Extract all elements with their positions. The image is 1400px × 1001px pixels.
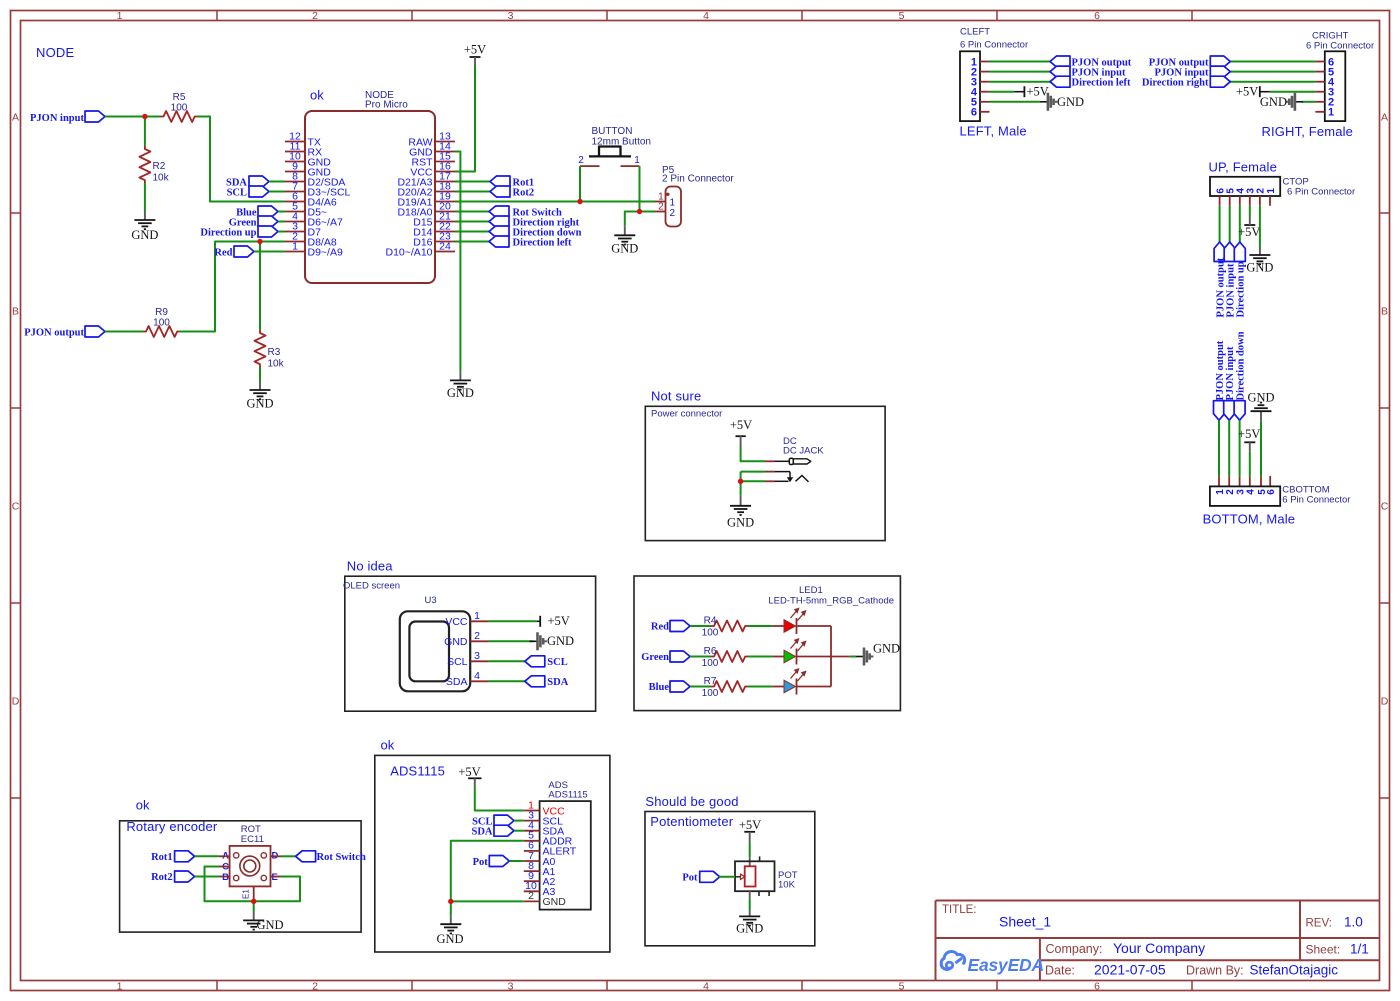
svg-text:PJON output: PJON output xyxy=(24,328,84,339)
svg-text:R3: R3 xyxy=(268,347,281,358)
svg-text:E1: E1 xyxy=(242,889,251,899)
svg-text:Drawn By:: Drawn By: xyxy=(1186,964,1244,978)
svg-text:GND: GND xyxy=(736,922,763,936)
svg-text:4: 4 xyxy=(703,10,709,22)
svg-text:4: 4 xyxy=(1246,489,1257,495)
svg-text:CLEFT: CLEFT xyxy=(960,27,990,38)
svg-text:2: 2 xyxy=(670,208,676,219)
svg-text:2 Pin Connector: 2 Pin Connector xyxy=(662,174,734,185)
svg-text:UP, Female: UP, Female xyxy=(1209,160,1277,175)
svg-text:R9: R9 xyxy=(155,307,168,318)
svg-text:Potentiometer: Potentiometer xyxy=(650,814,733,829)
svg-text:Rot2: Rot2 xyxy=(513,188,535,199)
svg-text:PJON input: PJON input xyxy=(1225,346,1236,400)
svg-text:GND: GND xyxy=(447,386,474,400)
svg-text:2: 2 xyxy=(578,155,584,166)
svg-text:GND: GND xyxy=(246,397,273,411)
svg-text:GND: GND xyxy=(1260,95,1287,109)
svg-text:100: 100 xyxy=(702,688,719,699)
svg-text:4: 4 xyxy=(474,670,480,682)
svg-text:GND: GND xyxy=(444,636,468,648)
svg-text:5: 5 xyxy=(899,981,905,993)
svg-text:Blue: Blue xyxy=(649,682,670,693)
svg-text:D: D xyxy=(12,696,20,708)
svg-text:GND: GND xyxy=(436,932,463,946)
svg-text:10k: 10k xyxy=(153,173,170,184)
svg-text:SDA: SDA xyxy=(547,677,568,688)
svg-text:D10~/A10: D10~/A10 xyxy=(386,246,433,258)
svg-text:NODE: NODE xyxy=(36,45,74,60)
svg-text:GND: GND xyxy=(873,641,900,655)
svg-text:LED1: LED1 xyxy=(799,585,823,596)
svg-text:+5V: +5V xyxy=(1027,85,1049,99)
svg-text:+5V: +5V xyxy=(1238,225,1260,239)
svg-text:+5V: +5V xyxy=(730,418,752,432)
svg-text:Your Company: Your Company xyxy=(1113,940,1205,956)
svg-text:R4: R4 xyxy=(704,615,717,626)
svg-text:Direction up: Direction up xyxy=(1236,261,1247,317)
svg-text:GND: GND xyxy=(1246,261,1273,275)
svg-text:6 Pin Connector: 6 Pin Connector xyxy=(1282,495,1350,506)
svg-text:ok: ok xyxy=(310,88,324,103)
svg-text:1/1: 1/1 xyxy=(1350,942,1369,957)
svg-text:VCC: VCC xyxy=(445,616,468,628)
svg-text:LEFT, Male: LEFT, Male xyxy=(960,124,1027,139)
svg-text:1: 1 xyxy=(1328,107,1334,119)
svg-text:100: 100 xyxy=(153,318,170,329)
svg-text:Date:: Date: xyxy=(1045,964,1075,978)
svg-text:+5V: +5V xyxy=(458,765,480,779)
svg-text:R7: R7 xyxy=(704,676,717,687)
svg-text:Rot2: Rot2 xyxy=(151,872,173,883)
svg-text:Pro Micro: Pro Micro xyxy=(365,100,408,111)
svg-text:6 Pin Connector: 6 Pin Connector xyxy=(1306,41,1374,52)
svg-text:3: 3 xyxy=(474,650,480,662)
svg-text:3: 3 xyxy=(508,10,514,22)
svg-text:4: 4 xyxy=(703,981,709,993)
svg-text:6: 6 xyxy=(1094,10,1100,22)
svg-text:A: A xyxy=(1381,112,1388,124)
svg-text:1: 1 xyxy=(1266,188,1277,194)
svg-text:SCL: SCL xyxy=(547,657,567,668)
svg-text:B: B xyxy=(12,306,19,318)
svg-text:RIGHT, Female: RIGHT, Female xyxy=(1262,124,1354,139)
svg-text:R2: R2 xyxy=(153,161,166,172)
svg-text:ok: ok xyxy=(136,798,150,813)
svg-text:GND: GND xyxy=(547,634,574,648)
svg-text:Pot: Pot xyxy=(682,873,698,884)
svg-text:3: 3 xyxy=(508,981,514,993)
svg-text:6 Pin Connector: 6 Pin Connector xyxy=(1287,187,1355,198)
svg-text:+5V: +5V xyxy=(1238,427,1260,441)
svg-text:100: 100 xyxy=(702,628,719,639)
svg-text:6: 6 xyxy=(971,107,977,119)
svg-text:OLED screen: OLED screen xyxy=(343,581,400,592)
svg-text:Pot: Pot xyxy=(473,857,489,868)
svg-text:D: D xyxy=(1381,696,1389,708)
svg-text:Not sure: Not sure xyxy=(651,389,701,404)
svg-text:R5: R5 xyxy=(173,92,186,103)
svg-text:SCL: SCL xyxy=(227,188,247,199)
svg-text:GND: GND xyxy=(131,228,158,242)
svg-text:2: 2 xyxy=(312,981,318,993)
svg-text:2: 2 xyxy=(1225,489,1236,495)
svg-text:C: C xyxy=(1381,501,1389,513)
svg-text:Direction up: Direction up xyxy=(200,228,256,239)
svg-text:Direction down: Direction down xyxy=(1235,331,1246,400)
svg-text:100: 100 xyxy=(702,658,719,669)
svg-text:2: 2 xyxy=(658,202,664,213)
svg-text:REV:: REV: xyxy=(1306,918,1332,930)
svg-text:SCL: SCL xyxy=(447,656,468,668)
svg-text:100: 100 xyxy=(171,103,188,114)
svg-text:1: 1 xyxy=(474,610,480,622)
svg-text:+5V: +5V xyxy=(464,43,486,57)
svg-text:1.0: 1.0 xyxy=(1344,915,1363,930)
svg-text:1: 1 xyxy=(292,241,298,253)
svg-text:1: 1 xyxy=(117,10,123,22)
svg-text:Should be good: Should be good xyxy=(645,794,738,809)
svg-text:BOTTOM, Male: BOTTOM, Male xyxy=(1203,512,1296,527)
svg-text:+5V: +5V xyxy=(739,818,761,832)
svg-text:1: 1 xyxy=(634,155,640,166)
svg-text:Red: Red xyxy=(214,248,232,259)
svg-text:TITLE:: TITLE: xyxy=(942,904,977,916)
svg-text:10k: 10k xyxy=(268,359,285,370)
svg-text:U3: U3 xyxy=(425,595,437,606)
svg-text:Rot1: Rot1 xyxy=(151,852,173,863)
svg-text:EC11: EC11 xyxy=(241,834,264,845)
svg-text:GND: GND xyxy=(257,918,284,932)
svg-text:2: 2 xyxy=(474,630,480,642)
svg-text:GND: GND xyxy=(1057,95,1084,109)
svg-text:Direction left: Direction left xyxy=(513,238,572,249)
svg-text:ADS1115: ADS1115 xyxy=(548,790,587,801)
svg-text:GND: GND xyxy=(543,896,567,908)
svg-text:ADS1115: ADS1115 xyxy=(390,764,445,779)
svg-text:BUTTON: BUTTON xyxy=(592,126,633,137)
svg-text:Direction left: Direction left xyxy=(1072,78,1131,89)
svg-text:Red: Red xyxy=(651,622,669,633)
svg-text:D9~/A9: D9~/A9 xyxy=(308,246,343,258)
svg-text:R6: R6 xyxy=(704,646,717,657)
svg-text:Company:: Company: xyxy=(1046,942,1103,956)
svg-text:Sheet:: Sheet: xyxy=(1306,943,1341,957)
svg-text:2: 2 xyxy=(312,10,318,22)
svg-text:Green: Green xyxy=(641,652,669,663)
svg-text:SDA: SDA xyxy=(446,676,468,688)
svg-text:GND: GND xyxy=(611,242,638,256)
svg-text:10K: 10K xyxy=(778,880,796,891)
svg-text:Rot Switch: Rot Switch xyxy=(317,852,366,863)
svg-text:1: 1 xyxy=(117,981,123,993)
svg-text:+5V: +5V xyxy=(1236,85,1258,99)
svg-text:PJON input: PJON input xyxy=(30,113,84,124)
svg-text:Power connector: Power connector xyxy=(651,409,722,420)
svg-text:B: B xyxy=(1381,306,1388,318)
svg-text:Rotary encoder: Rotary encoder xyxy=(126,819,218,834)
svg-text:Sheet_1: Sheet_1 xyxy=(999,914,1051,930)
svg-text:+5V: +5V xyxy=(548,614,570,628)
svg-text:5: 5 xyxy=(899,10,905,22)
svg-text:LED-TH-5mm_RGB_Cathode: LED-TH-5mm_RGB_Cathode xyxy=(768,595,894,606)
svg-text:24: 24 xyxy=(439,241,451,253)
svg-text:ok: ok xyxy=(381,738,395,753)
svg-text:No idea: No idea xyxy=(347,559,393,574)
svg-text:6 Pin Connector: 6 Pin Connector xyxy=(960,40,1028,51)
svg-text:2: 2 xyxy=(528,890,534,902)
svg-text:GND: GND xyxy=(727,516,754,530)
svg-text:DC JACK: DC JACK xyxy=(783,446,824,457)
svg-text:6: 6 xyxy=(1266,489,1277,495)
svg-text:StefanOtajagic: StefanOtajagic xyxy=(1250,963,1339,978)
svg-text:A: A xyxy=(12,112,19,124)
svg-text:Direction right: Direction right xyxy=(1142,78,1209,89)
svg-text:2021-07-05: 2021-07-05 xyxy=(1094,962,1166,978)
svg-text:SDA: SDA xyxy=(471,827,492,838)
svg-text:C: C xyxy=(12,501,20,513)
svg-text:6: 6 xyxy=(1094,981,1100,993)
svg-text:EasyEDA: EasyEDA xyxy=(968,955,1044,975)
